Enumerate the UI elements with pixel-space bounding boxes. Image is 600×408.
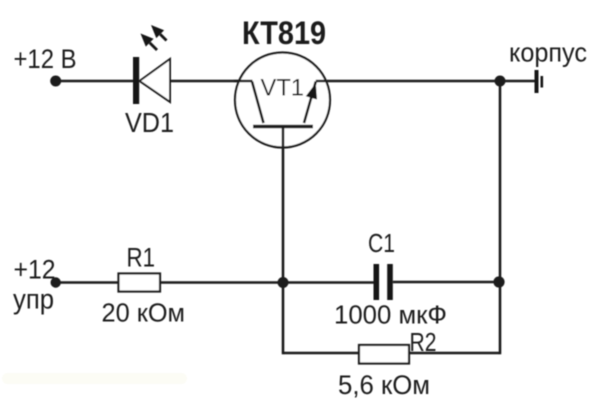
- resistor R2 body: [359, 345, 409, 364]
- wire transistor to chassis: [316, 80, 535, 83]
- chassis symbol long bar: [535, 70, 539, 93]
- capacitor C1 right plate: [387, 264, 393, 300]
- transistor emitter arrowhead: [306, 83, 317, 100]
- svg-text:R2: R2: [410, 327, 437, 357]
- svg-text:5,6 кОм: 5,6 кОм: [338, 370, 430, 400]
- transistor collector slant: [252, 82, 264, 124]
- svg-text:+12: +12: [14, 255, 56, 285]
- svg-text:20 кОм: 20 кОм: [102, 298, 186, 328]
- node dot upr: [51, 277, 61, 287]
- wire R1 to junction: [160, 281, 283, 284]
- LED VD1 triangle: [140, 59, 171, 102]
- wire C1 to right node: [393, 281, 500, 284]
- wire node to LED cathode: [56, 80, 134, 83]
- transistor emitter slant: [304, 82, 316, 124]
- svg-text:корпус: корпус: [509, 37, 587, 67]
- wire LED to transistor: [170, 80, 253, 83]
- capacitor C1 left plate: [374, 264, 380, 300]
- LED light arrow 1: [141, 34, 158, 51]
- svg-text:КТ819: КТ819: [242, 15, 326, 51]
- LED light arrow 2: [151, 25, 167, 41]
- transistor base bar: [253, 125, 313, 128]
- node dot +12V: [50, 76, 61, 87]
- resistor R1 body: [119, 274, 161, 292]
- wire LED into circle: [234, 80, 253, 83]
- watermark: [2, 373, 187, 384]
- junction dot base node: [278, 277, 289, 288]
- svg-text:1000 мкФ: 1000 мкФ: [334, 300, 447, 330]
- wire bottom: [283, 352, 500, 355]
- transistor U1 circle: [235, 53, 330, 148]
- svg-text:VT1: VT1: [261, 75, 305, 102]
- wire upr node to R1: [56, 281, 119, 284]
- svg-text:R1: R1: [127, 243, 156, 273]
- wire right vertical: [499, 81, 502, 354]
- wire base lead vertical: [282, 125, 285, 354]
- svg-text:С1: С1: [368, 228, 395, 258]
- svg-text:упр: упр: [13, 284, 54, 315]
- LED VD1 cathode bar: [133, 57, 139, 104]
- chassis symbol short bar: [540, 76, 543, 88]
- wire junction to C1: [283, 281, 374, 284]
- node dot right cap: [493, 276, 504, 287]
- svg-text:VD1: VD1: [125, 107, 174, 138]
- svg-text:+12 В: +12 В: [14, 44, 77, 74]
- node dot top right: [495, 76, 506, 87]
